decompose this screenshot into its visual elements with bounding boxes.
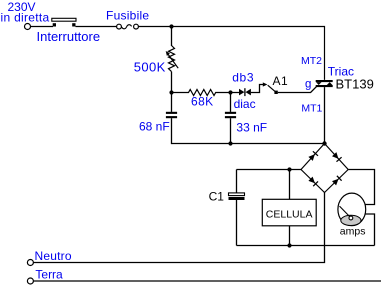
svg-text:33 nF: 33 nF [236, 121, 267, 135]
svg-text:amps: amps [340, 225, 366, 237]
svg-text:A1: A1 [273, 74, 289, 88]
svg-text:500K: 500K [134, 59, 166, 74]
svg-text:C1: C1 [209, 189, 225, 203]
svg-text:Fusibile: Fusibile [106, 9, 149, 23]
svg-text:CELLULA: CELLULA [266, 208, 313, 220]
svg-text:Terra: Terra [35, 268, 63, 282]
svg-text:MT1: MT1 [301, 102, 322, 114]
svg-text:in diretta: in diretta [1, 10, 50, 24]
svg-text:diac: diac [234, 97, 256, 111]
svg-text:68 nF: 68 nF [139, 119, 170, 133]
svg-text:Interruttore: Interruttore [37, 29, 101, 44]
svg-text:g: g [305, 79, 311, 91]
svg-text:db3: db3 [232, 71, 254, 85]
svg-text:BT139: BT139 [336, 77, 374, 92]
svg-text:Neutro: Neutro [35, 249, 72, 263]
svg-text:68K: 68K [191, 94, 214, 108]
svg-text:MT2: MT2 [301, 55, 322, 67]
